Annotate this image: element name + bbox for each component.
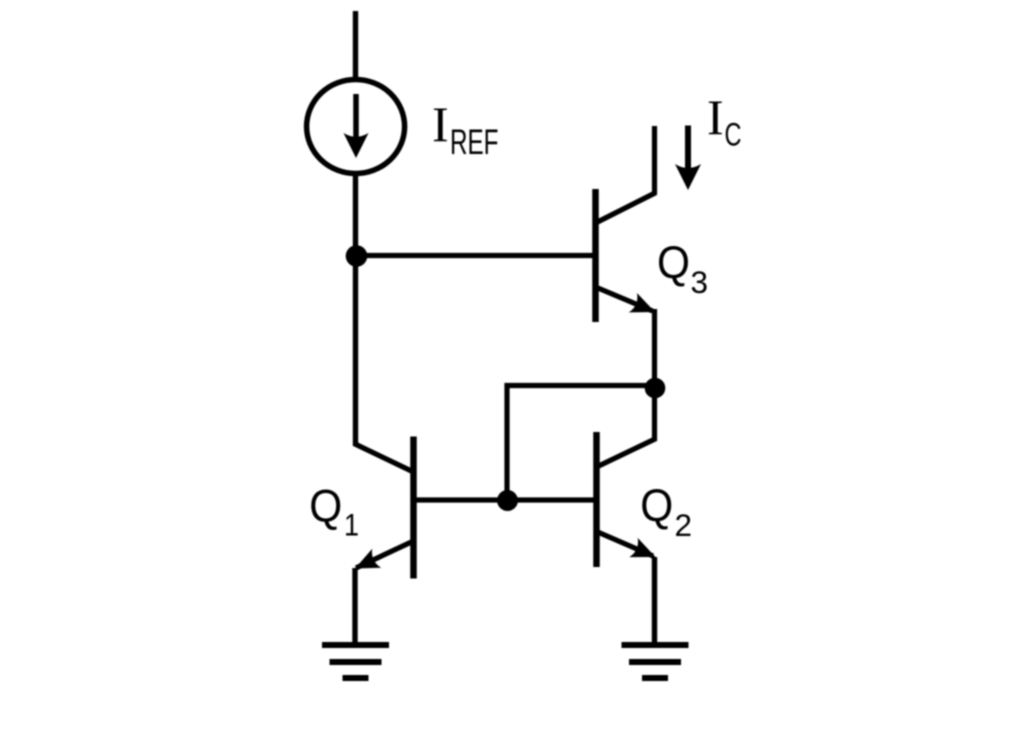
wire: Q1 base to Q2 base — [414, 497, 597, 502]
ground (Q2 emitter) — [622, 645, 689, 678]
node A junction dot — [346, 245, 368, 267]
transistor Q2 — [597, 432, 660, 567]
ground (Q1 emitter) — [322, 645, 389, 678]
transistor Q3 — [596, 189, 660, 322]
label I_C — [707, 89, 742, 153]
label Q2 — [640, 480, 692, 543]
label Q1 — [309, 481, 359, 543]
node B base junction dot — [497, 490, 518, 511]
svg-text:Q: Q — [657, 237, 690, 288]
svg-text:REF: REF — [450, 123, 499, 162]
svg-text:I: I — [707, 89, 724, 145]
svg-text:Q: Q — [309, 481, 342, 532]
svg-text:I: I — [432, 96, 449, 152]
wire: node A down to Q1 collector — [353, 256, 358, 446]
svg-text:Q: Q — [640, 480, 673, 531]
wire: current source to node A — [353, 174, 358, 258]
transistor Q1 — [351, 437, 414, 579]
svg-text:2: 2 — [675, 507, 693, 543]
label Q3 — [657, 237, 708, 300]
svg-text:C: C — [725, 117, 742, 153]
arrow I_C output current — [675, 126, 701, 191]
wire: Q3 collector up (output lead) — [652, 126, 657, 194]
wire: feedback node B up and across to node C — [507, 386, 655, 501]
wire: Q2 emitter to ground — [652, 557, 657, 645]
wire: Q3 emitter down to node C — [652, 309, 657, 388]
svg-text:1: 1 — [344, 507, 359, 543]
wire: node A to Q3 base — [356, 253, 596, 258]
label I_REF — [432, 96, 499, 162]
node C junction dot — [645, 378, 666, 399]
wire: top supply lead into current source — [353, 11, 358, 78]
wire: Q1 emitter to ground — [352, 568, 357, 645]
current source IREF — [307, 80, 405, 174]
wire: Q2 collector up to node C — [652, 388, 657, 441]
svg-text:3: 3 — [691, 264, 709, 300]
